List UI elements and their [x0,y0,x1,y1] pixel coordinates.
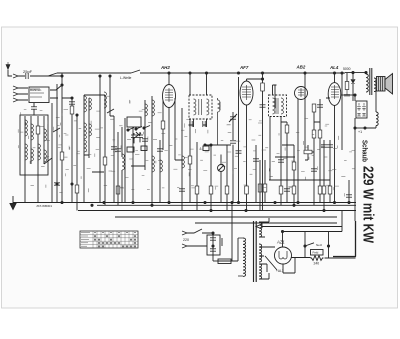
svg-text:AF7: AF7 [239,65,249,70]
svg-text:Schaub: Schaub [361,140,370,162]
svg-text:JST-WB301: JST-WB301 [36,204,52,208]
svg-text:220: 220 [183,238,189,242]
svg-text:240: 240 [314,262,320,266]
svg-text:+1: +1 [358,130,362,134]
svg-text:Rahmen: Rahmen [30,88,42,92]
svg-text:229 W mit KW: 229 W mit KW [360,166,377,244]
svg-text:25pF: 25pF [23,69,33,74]
svg-text:+AL1: +AL1 [276,269,284,273]
svg-text:Netz: Netz [316,243,323,247]
svg-text:AL4: AL4 [329,65,339,70]
svg-text:AH2: AH2 [160,65,170,70]
svg-text:Feld: Feld [313,251,319,255]
svg-text:5000: 5000 [343,67,351,71]
svg-text:AB2: AB2 [296,65,306,70]
svg-text:L-Welle: L-Welle [120,76,132,80]
svg-text:AZ1: AZ1 [276,240,285,245]
